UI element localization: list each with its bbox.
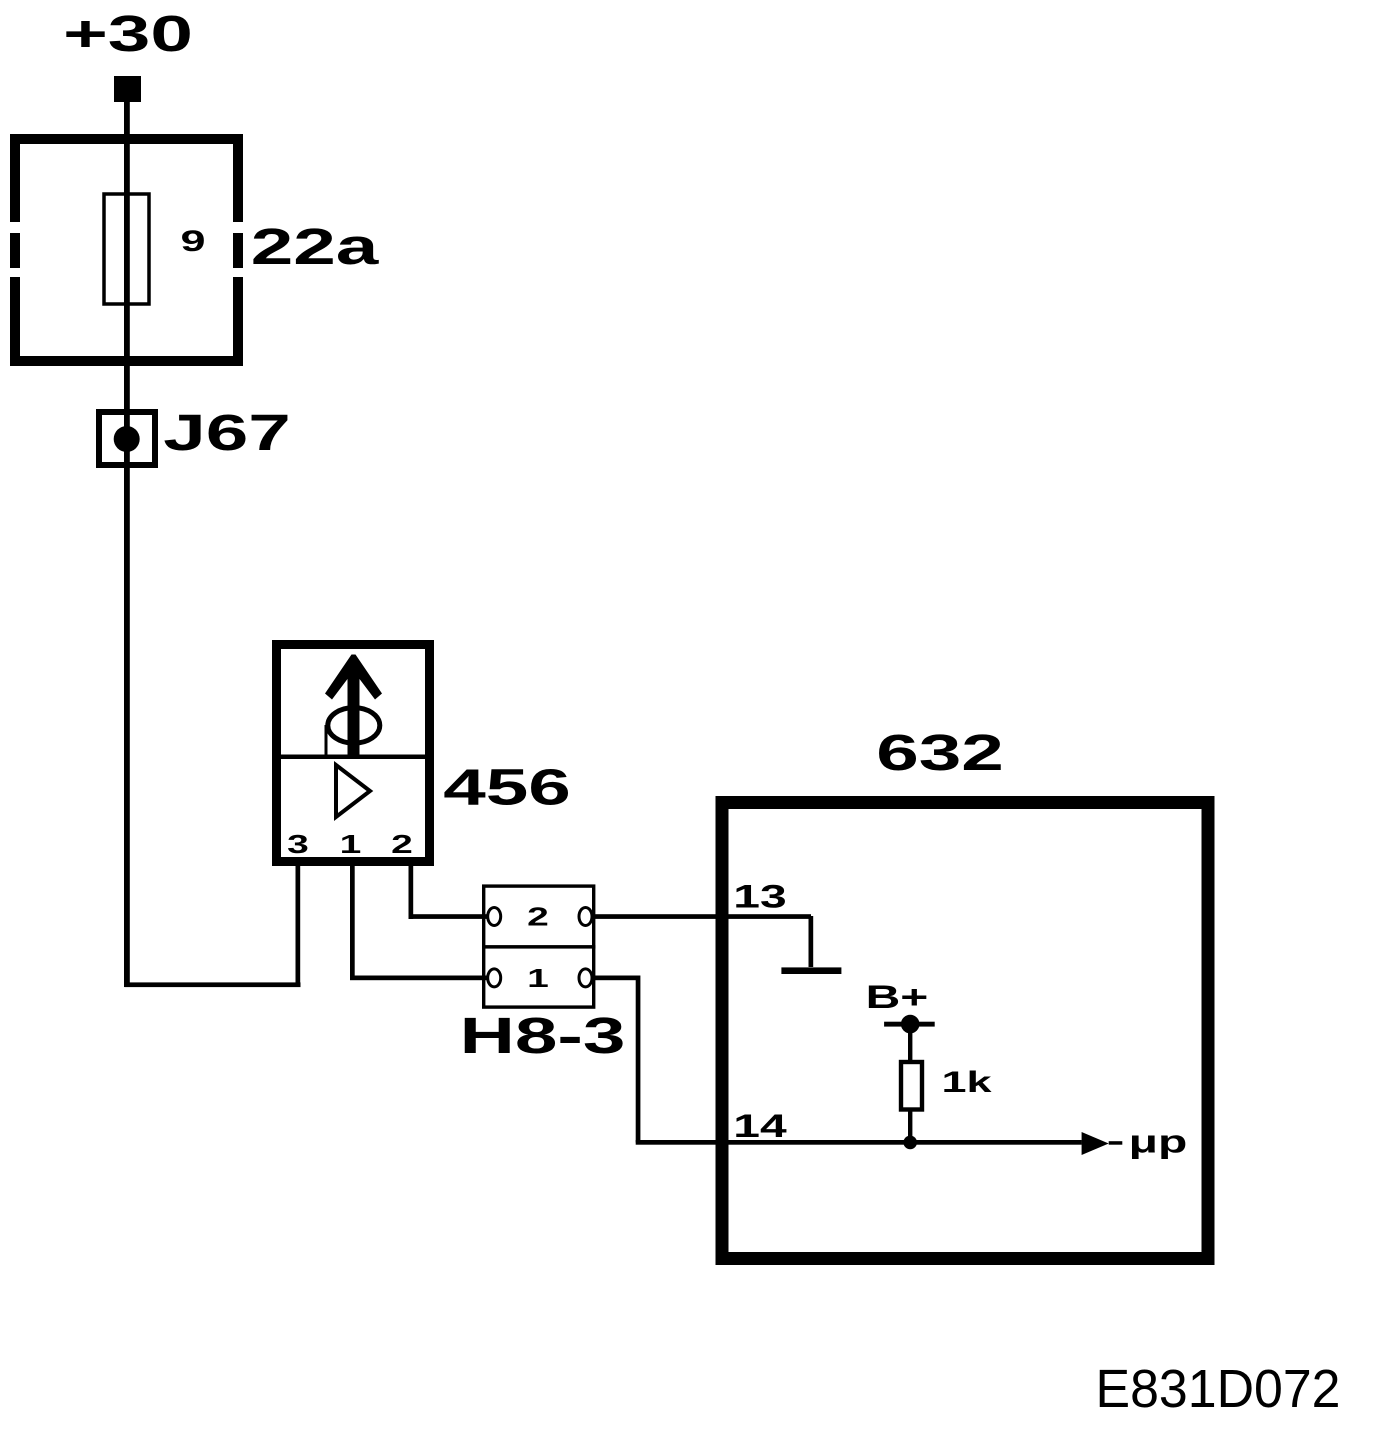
svg-text:2: 2 bbox=[391, 830, 413, 859]
svg-text:E831D072: E831D072 bbox=[1096, 1359, 1341, 1419]
svg-text:14: 14 bbox=[733, 1108, 787, 1144]
svg-text:456: 456 bbox=[443, 758, 571, 815]
svg-text:1: 1 bbox=[340, 830, 362, 859]
svg-text:μp: μp bbox=[1129, 1123, 1188, 1159]
svg-text:9: 9 bbox=[180, 224, 205, 258]
svg-text:2: 2 bbox=[527, 903, 549, 932]
svg-text:1: 1 bbox=[527, 964, 549, 993]
svg-text:632: 632 bbox=[876, 724, 1004, 781]
svg-text:H8-3: H8-3 bbox=[460, 1007, 626, 1064]
svg-text:B+: B+ bbox=[866, 979, 929, 1015]
svg-text:22a: 22a bbox=[251, 218, 380, 275]
svg-text:J67: J67 bbox=[163, 404, 291, 461]
svg-text:+30: +30 bbox=[63, 5, 193, 62]
svg-text:1k: 1k bbox=[941, 1065, 992, 1099]
svg-text:3: 3 bbox=[287, 830, 309, 859]
svg-text:13: 13 bbox=[733, 878, 786, 914]
